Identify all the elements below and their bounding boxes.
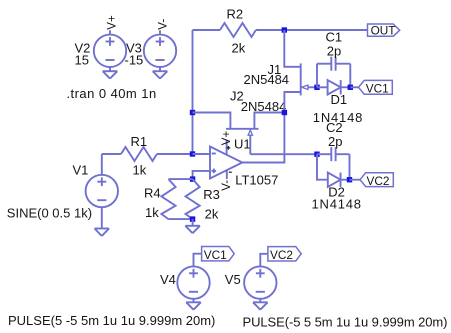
- wire J2 drain: [193, 113, 231, 129]
- svg-text:VC1: VC1: [204, 248, 227, 262]
- wire V2 minus pin stub: [109, 67, 111, 71]
- voltage source V4: [177, 266, 209, 298]
- wire U1 inverting input: [193, 153, 211, 155]
- wire V4 top to VC1 flag: [194, 254, 202, 267]
- svg-text:1N4148: 1N4148: [312, 196, 362, 211]
- svg-text:V1: V1: [73, 162, 89, 177]
- svg-text:2N5484: 2N5484: [241, 99, 287, 114]
- ground V1: [95, 228, 110, 230]
- wire to VC1 flag: [350, 86, 358, 88]
- flag VC1 (V4): [202, 247, 235, 261]
- node VC1 (junction D1/C1/flag): [348, 85, 353, 90]
- wire V4 bottom stub: [193, 299, 195, 303]
- node VC2 (junction D2/C2/flag): [347, 177, 352, 182]
- node inverting input (junction R1/rail/U1-): [190, 151, 195, 156]
- node junction J1 gate/D1/C1: [314, 85, 319, 90]
- node junction J2 gate/D2/C2: [314, 152, 319, 157]
- svg-text:C2: C2: [326, 120, 343, 135]
- ground V2: [103, 70, 118, 72]
- node junction J1/J2 sources/U1 output: [282, 110, 287, 115]
- svg-text:SINE(0 0.5 1k): SINE(0 0.5 1k): [7, 206, 92, 221]
- wire V1 to R1: [102, 153, 121, 155]
- op-amp U1: [210, 147, 242, 179]
- resistor R1: [121, 147, 157, 161]
- svg-text:2p: 2p: [327, 43, 341, 58]
- wire V1 top stub: [101, 154, 103, 175]
- svg-text:2k: 2k: [232, 41, 246, 56]
- svg-text:VC1: VC1: [366, 81, 389, 95]
- svg-text:R3: R3: [203, 187, 220, 202]
- wire V1 bottom to ground: [101, 207, 103, 228]
- svg-text:1k: 1k: [133, 162, 147, 177]
- svg-text:V4: V4: [160, 272, 176, 287]
- svg-text:V-: V-: [157, 19, 169, 30]
- voltage source V3: [144, 35, 176, 67]
- svg-text:U1: U1: [234, 136, 251, 151]
- wire R2 left to rail: [193, 29, 221, 31]
- voltage source V5: [244, 266, 276, 298]
- svg-text:PULSE(5 -5 5m 1u 1u 9.999m 20m: PULSE(5 -5 5m 1u 1u 9.999m 20m): [8, 313, 215, 328]
- flag VC1: [359, 80, 393, 94]
- resistor R4: [161, 179, 175, 219]
- ground V3: [153, 70, 168, 72]
- svg-text:V5: V5: [225, 272, 241, 287]
- svg-text:V-: V-: [221, 180, 233, 191]
- voltage source V1: [86, 175, 118, 207]
- wire R2 right to OUT: [256, 29, 368, 31]
- transistor J1 gate: [302, 85, 308, 89]
- wire V3 minus pin stub: [159, 67, 161, 71]
- capacitor C2: [317, 153, 331, 155]
- wire V2 plus pin stub: [109, 30, 111, 34]
- wire V3 plus pin stub: [159, 30, 161, 34]
- diode D1: [317, 86, 328, 88]
- transistor J1 channel: [300, 63, 302, 95]
- svg-text:15: 15: [75, 52, 89, 67]
- flag VC2: [360, 173, 393, 187]
- svg-text:R2: R2: [227, 7, 244, 22]
- svg-text:V+: V+: [221, 131, 233, 146]
- wire U1 non-inverting input to R3/R4: [193, 171, 210, 179]
- node junction U1+/R4/R3: [190, 176, 195, 181]
- ground V5: [253, 301, 268, 303]
- resistor R2: [220, 23, 256, 37]
- transistor J2 channel: [226, 128, 259, 130]
- svg-text:LT1057: LT1057: [235, 173, 278, 188]
- ground V4: [186, 301, 201, 303]
- node junction R3/R4 bottom: [190, 216, 195, 221]
- wire J1 drain: [284, 30, 300, 67]
- svg-text:1k: 1k: [145, 205, 159, 220]
- wire V5 bottom stub: [259, 299, 261, 303]
- svg-text:.tran 0 40m 1n: .tran 0 40m 1n: [67, 86, 157, 101]
- svg-text:D1: D1: [331, 92, 348, 107]
- node OUT (junction R2/J1 drain/flag): [282, 27, 287, 32]
- capacitor C1: [316, 64, 318, 88]
- svg-text:R1: R1: [131, 134, 148, 149]
- wire to VC2 flag: [350, 179, 361, 181]
- svg-text:2k: 2k: [205, 206, 219, 221]
- diode D2: [317, 154, 328, 180]
- wire J2 gate to D2/C2: [250, 153, 317, 155]
- transistor J2 gate: [248, 130, 252, 135]
- wire U1 output to J1/J2 sources: [242, 113, 284, 163]
- voltage source V2: [94, 35, 126, 67]
- svg-text:2N5484: 2N5484: [244, 72, 290, 87]
- svg-text:VC2: VC2: [270, 248, 293, 262]
- flag VC2 (V5): [268, 247, 301, 261]
- wire J1 source: [284, 92, 300, 113]
- wire J2 source: [254, 113, 284, 129]
- svg-text:R4: R4: [144, 185, 161, 200]
- wire R4 bottom lead: [169, 218, 193, 220]
- svg-text:C1: C1: [326, 29, 343, 44]
- wire V5 top to VC2 flag: [260, 254, 268, 267]
- node junction rail/J2 drain: [190, 110, 195, 115]
- ground R3/R4: [185, 225, 200, 227]
- wire to ground: [192, 219, 194, 226]
- svg-text:-15: -15: [125, 52, 144, 67]
- svg-text:V+: V+: [107, 15, 119, 30]
- wire R1 to inverting node: [157, 153, 193, 155]
- wire R4 top lead: [169, 178, 193, 180]
- flag OUT: [368, 24, 400, 36]
- svg-text:PULSE(-5 5 5m 1u 1u 9.999m 20m: PULSE(-5 5 5m 1u 1u 9.999m 20m): [243, 315, 448, 330]
- svg-text:OUT: OUT: [371, 23, 396, 37]
- resistor R3: [186, 179, 200, 219]
- wire inverting-input rail: [192, 30, 194, 154]
- svg-text:2p: 2p: [328, 134, 342, 149]
- svg-text:VC2: VC2: [367, 174, 390, 188]
